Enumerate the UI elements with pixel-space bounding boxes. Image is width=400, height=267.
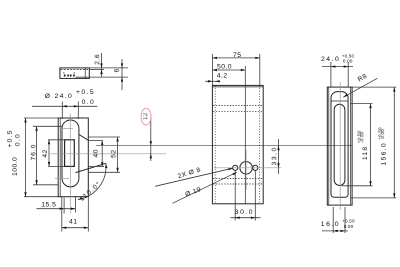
svg-text:100.0: 100.0	[12, 157, 19, 176]
svg-text:+0.5: +0.5	[7, 129, 14, 147]
svg-text:50.0: 50.0	[217, 64, 232, 71]
svg-text:76.0: 76.0	[30, 144, 37, 161]
svg-text:0.0: 0.0	[15, 133, 22, 146]
svg-text:15.5: 15.5	[41, 201, 56, 208]
svg-text:41: 41	[69, 218, 77, 225]
svg-text:-0.00: -0.00	[359, 131, 364, 143]
svg-text:2.6: 2.6	[94, 54, 101, 65]
svg-text:33.0: 33.0	[271, 146, 278, 165]
svg-text:0.00: 0.00	[380, 129, 385, 139]
svg-text:4.2: 4.2	[217, 72, 228, 79]
svg-text:6: 6	[114, 68, 121, 72]
svg-text:156.0: 156.0	[381, 142, 388, 166]
svg-text:42: 42	[42, 149, 49, 157]
svg-text:52: 52	[110, 149, 117, 157]
svg-text:Ø 24.0: Ø 24.0	[45, 93, 74, 100]
svg-text:0.00: 0.00	[343, 59, 353, 64]
svg-text:0.0: 0.0	[82, 99, 96, 106]
svg-text:30.0: 30.0	[235, 209, 254, 216]
svg-text:+0.50: +0.50	[342, 218, 355, 223]
svg-text:40: 40	[93, 149, 100, 157]
svg-text:12: 12	[143, 112, 149, 120]
svg-text:118: 118	[362, 145, 369, 160]
svg-text:16.0: 16.0	[321, 221, 340, 228]
svg-text:75: 75	[233, 52, 241, 59]
svg-text:+0.5: +0.5	[76, 89, 95, 96]
svg-text:24.0: 24.0	[321, 56, 340, 63]
svg-text:0.00: 0.00	[344, 224, 354, 229]
